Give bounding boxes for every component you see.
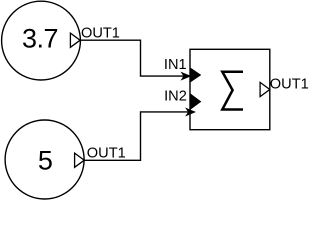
input port IN1 of SUM1 [190, 68, 200, 82]
svg-text:IN1: IN1 [164, 57, 187, 73]
wire CONST2.OUT1 to SUM1.IN2 [84, 112, 188, 160]
svg-text:3.7: 3.7 [22, 24, 59, 54]
svg-text:OUT1: OUT1 [87, 146, 126, 162]
output port OUT1 of CONST1 [70, 33, 80, 47]
arrowhead at SUM1.IN1 [182, 73, 190, 80]
output port OUT1 of CONST2 [75, 153, 85, 167]
constant source block CONST2 (value 5) [5, 120, 84, 199]
svg-text:5: 5 [38, 146, 53, 176]
svg-text:OUT1: OUT1 [81, 25, 120, 41]
constant source block CONST1 (value 3.7) [2, 1, 81, 80]
arrowhead at SUM1.IN2 [186, 109, 194, 116]
summation block SUM1 [190, 49, 270, 129]
svg-text:OUT1: OUT1 [270, 76, 309, 92]
svg-text:IN2: IN2 [164, 89, 187, 105]
wire CONST1.OUT1 to SUM1.IN1 [80, 40, 184, 76]
sigma symbol of SUM1 [222, 72, 243, 110]
input port IN2 of SUM1 [190, 94, 201, 110]
output port OUT1 of SUM1 [260, 82, 270, 96]
